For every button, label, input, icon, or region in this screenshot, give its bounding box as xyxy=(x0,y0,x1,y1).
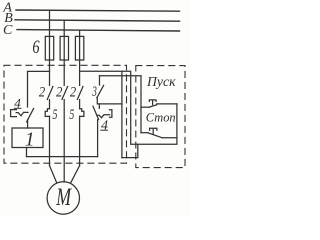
wire: up to thermal contact 4 (right) xyxy=(97,120,99,157)
start button actuator xyxy=(149,100,156,105)
wire: drop from bus A to fuse 1 xyxy=(49,11,51,37)
wire: tap from line 3 to buttons xyxy=(80,71,177,144)
auxiliary contact 3: upper wire xyxy=(99,76,101,85)
phase bus C xyxy=(17,30,180,31)
thermal relay contact 4 (right): fixed T terminal xyxy=(110,110,112,118)
stop button bridge xyxy=(148,133,162,138)
start button bridge xyxy=(150,105,157,107)
auxiliary contact 3: slash xyxy=(97,85,104,97)
svg-text:Пуск: Пуск xyxy=(146,74,176,89)
fuse F3 xyxy=(75,36,83,60)
svg-text:2: 2 xyxy=(70,85,77,101)
label 4 (left) with underline xyxy=(14,95,21,110)
svg-text:5: 5 xyxy=(53,107,58,123)
coil 1 of contactor xyxy=(12,128,43,148)
wire: slant line 1 into motor xyxy=(50,166,57,183)
wire: line 2 contact down to motor xyxy=(63,100,65,182)
wire: line 2 fuse to contact xyxy=(63,60,65,85)
thermal relay contact 4 (right): drop from node xyxy=(98,104,100,108)
svg-text:4: 4 xyxy=(101,118,108,133)
wire: drop from bus C to fuse 3 xyxy=(79,30,81,36)
wire: aux branch from node to stop side xyxy=(122,144,138,157)
phase bus A xyxy=(16,10,180,11)
wire: line 1 fuse to contact xyxy=(49,60,51,85)
button station dashed box xyxy=(136,66,185,168)
svg-text:2: 2 xyxy=(39,84,46,100)
thermal heater element 5 on line 1 xyxy=(45,109,49,117)
wire: drop from bus B to fuse 2 xyxy=(63,20,65,36)
wire: line 3 fuse to contact xyxy=(79,60,81,85)
starter enclosure dashed box xyxy=(4,65,127,163)
thermal relay contact 4 (right): notched blade xyxy=(97,115,110,118)
thermal relay contact 4 (right): moving slash xyxy=(93,106,99,119)
wire: slant line 3 into motor xyxy=(71,166,80,183)
wire: line 1 heater down to motor bend xyxy=(49,116,51,165)
svg-text:С: С xyxy=(3,23,13,38)
stop button actuator xyxy=(150,128,157,134)
svg-text:2: 2 xyxy=(56,85,63,101)
main contact K3 (2) slash xyxy=(77,87,83,100)
wire: bottom control run xyxy=(27,156,98,158)
label 4 (right) with underline xyxy=(101,118,108,133)
thermal relay contact 4 (left): notched blade xyxy=(16,112,28,115)
svg-text:М: М xyxy=(56,182,73,211)
wire: contact 4 to coil xyxy=(27,120,29,129)
thermal relay contact 4 (left): fixed T terminal xyxy=(11,110,17,117)
auxiliary contact 3: lower wire xyxy=(97,98,122,104)
fuse F2 xyxy=(60,36,68,60)
phase bus B xyxy=(15,20,180,21)
stop button right terminal xyxy=(162,137,177,139)
stop button left terminal xyxy=(141,132,148,134)
wire: line 3 contact to heater xyxy=(79,100,81,109)
main contact K2 (2) slash xyxy=(62,87,68,100)
svg-text:5: 5 xyxy=(69,107,74,123)
fuse F1 xyxy=(45,36,53,60)
wire: line 3 heater down to motor bend xyxy=(79,116,81,165)
wire: contact 3 top to button box xyxy=(100,76,142,133)
wire: coil down xyxy=(26,148,28,157)
main contact K1 (2) slash xyxy=(47,87,53,100)
svg-text:6: 6 xyxy=(32,37,40,58)
motor M circle xyxy=(47,182,79,214)
svg-text:Стоп: Стоп xyxy=(146,110,176,125)
svg-text:3: 3 xyxy=(92,84,97,100)
wire: tap from line 1 to coil branch xyxy=(28,71,50,107)
wire: riser to line-3 tap wire xyxy=(121,71,123,157)
thermal relay contact 4 (left): moving slash xyxy=(27,109,34,122)
thermal heater element 5 on line 3 xyxy=(80,109,84,117)
start button right terminal xyxy=(157,103,177,105)
wire: line 1 contact to heater xyxy=(49,100,51,109)
start button left terminal xyxy=(141,106,150,108)
